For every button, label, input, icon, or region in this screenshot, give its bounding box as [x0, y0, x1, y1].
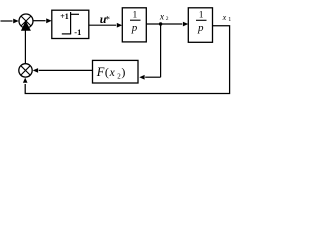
svg-text:p: p [197, 22, 204, 34]
svg-text:2: 2 [166, 16, 169, 22]
svg-text:x: x [109, 67, 116, 79]
svg-text:): ) [121, 65, 125, 79]
svg-text:F: F [96, 65, 105, 79]
svg-text:x: x [222, 13, 227, 22]
svg-text:(: ( [105, 65, 109, 79]
svg-text:1: 1 [133, 10, 138, 20]
svg-text:x: x [159, 12, 165, 22]
svg-text:*: * [105, 15, 110, 25]
svg-text:1: 1 [228, 17, 231, 23]
svg-text:-1: -1 [74, 27, 81, 37]
svg-text:1: 1 [199, 10, 204, 20]
svg-text:+1: +1 [60, 12, 69, 21]
svg-text:p: p [131, 22, 138, 34]
